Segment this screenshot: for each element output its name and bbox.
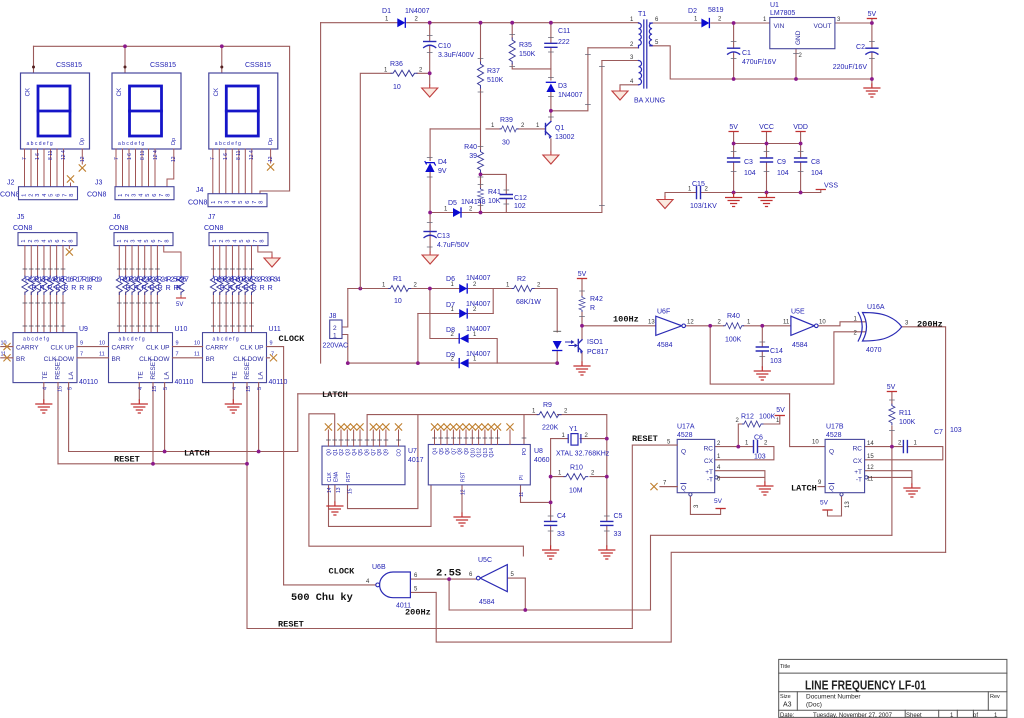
svg-text:D1: D1: [382, 8, 391, 15]
svg-text:2: 2: [333, 325, 337, 332]
svg-text:VDD: VDD: [793, 124, 808, 131]
svg-text:220K: 220K: [542, 425, 559, 432]
svg-text:4.7uF/50V: 4.7uF/50V: [437, 242, 470, 249]
svg-text:13: 13: [845, 501, 851, 508]
svg-text:Tuesday, November 27, 2007: Tuesday, November 27, 2007: [813, 712, 892, 718]
svg-text:R10: R10: [570, 465, 583, 472]
svg-text:U16A: U16A: [867, 304, 885, 311]
svg-text:104: 104: [777, 170, 789, 177]
svg-text:R40: R40: [464, 144, 477, 151]
svg-text:CX: CX: [853, 458, 863, 465]
svg-text:RRRRRRR: RRRRRRR: [220, 285, 276, 292]
svg-text:-T: -T: [707, 477, 713, 484]
svg-text:C14: C14: [770, 348, 783, 355]
svg-text:7: 7: [22, 157, 28, 160]
svg-text:5V: 5V: [887, 384, 896, 391]
svg-text:4: 4: [232, 387, 238, 390]
svg-text:104: 104: [744, 170, 756, 177]
svg-text:U17B: U17B: [826, 424, 844, 431]
svg-text:510K: 510K: [487, 77, 504, 84]
svg-text:15: 15: [348, 488, 354, 494]
svg-text:3.3uF/400V: 3.3uF/400V: [438, 52, 475, 59]
svg-text:103: 103: [950, 427, 962, 434]
svg-text:Q4: Q4: [433, 448, 439, 455]
svg-text:104: 104: [811, 170, 823, 177]
svg-text:10: 10: [99, 341, 105, 347]
svg-text:Q1: Q1: [555, 125, 564, 132]
svg-text:Q5: Q5: [358, 449, 364, 456]
svg-text:Title: Title: [780, 664, 790, 670]
svg-text:15: 15: [58, 386, 64, 392]
svg-text:4: 4: [43, 387, 49, 390]
svg-text:Q7: Q7: [371, 449, 377, 456]
svg-text:5819: 5819: [708, 7, 724, 14]
svg-text:CON8: CON8: [188, 200, 208, 207]
svg-text:4060: 4060: [534, 457, 550, 464]
svg-text:11: 11: [867, 477, 874, 483]
svg-text:R35: R35: [519, 42, 532, 49]
svg-text:of: of: [973, 713, 978, 718]
svg-text:4584: 4584: [479, 599, 495, 606]
svg-text:J3: J3: [95, 180, 103, 187]
svg-text:R37: R37: [487, 68, 500, 75]
svg-text:Q1: Q1: [333, 449, 339, 456]
svg-text:1 6: 1 6: [35, 153, 41, 160]
svg-text:R1: R1: [393, 276, 402, 283]
svg-text:C4: C4: [557, 513, 566, 520]
svg-text:U5C: U5C: [478, 557, 492, 564]
svg-text:D2: D2: [688, 8, 697, 15]
svg-text:9: 9: [270, 341, 273, 347]
svg-text:U6F: U6F: [657, 309, 670, 316]
svg-text:4528: 4528: [826, 432, 842, 439]
svg-text:68K/1W: 68K/1W: [516, 299, 541, 306]
svg-text:D3: D3: [558, 83, 567, 90]
svg-text:R2: R2: [517, 276, 526, 283]
svg-text:5V: 5V: [714, 498, 723, 505]
svg-text:CSS815: CSS815: [245, 62, 271, 69]
svg-text:10: 10: [819, 320, 826, 326]
svg-text:U9: U9: [79, 326, 88, 333]
svg-text:30: 30: [502, 140, 510, 147]
svg-text:Q12: Q12: [477, 448, 483, 458]
svg-text:LATCH: LATCH: [322, 390, 348, 400]
svg-text:1N4148: 1N4148: [461, 199, 486, 206]
svg-text:R: R: [590, 305, 595, 312]
svg-text:8 11: 8 11: [236, 150, 242, 160]
svg-text:U5E: U5E: [791, 309, 805, 316]
svg-text:BA XUNG: BA XUNG: [634, 98, 665, 105]
svg-text:J7: J7: [208, 214, 216, 221]
svg-text:ENA: ENA: [333, 471, 339, 482]
svg-text:13: 13: [648, 320, 655, 326]
svg-text:U1: U1: [770, 2, 779, 9]
svg-text:C11: C11: [558, 28, 570, 35]
svg-text:1N4007: 1N4007: [466, 326, 491, 333]
svg-text:Q5: Q5: [439, 448, 445, 455]
svg-text:4017: 4017: [408, 457, 424, 464]
svg-text:Date:: Date:: [780, 713, 795, 718]
svg-text:Sheet: Sheet: [906, 713, 922, 718]
svg-text:CO: CO: [397, 449, 403, 457]
svg-text:D4: D4: [438, 159, 447, 166]
svg-text:Q: Q: [829, 485, 834, 492]
svg-text:LM7805: LM7805: [770, 10, 795, 17]
svg-text:C6: C6: [754, 435, 763, 442]
svg-text:-T: -T: [856, 477, 862, 484]
svg-text:150K: 150K: [519, 51, 536, 58]
svg-text:15: 15: [867, 454, 874, 460]
svg-text:10K: 10K: [488, 198, 501, 205]
svg-text:CLK: CLK: [327, 472, 333, 482]
svg-text:13002: 13002: [555, 134, 575, 141]
svg-text:15: 15: [246, 386, 252, 392]
svg-text:Q7: Q7: [451, 448, 457, 455]
svg-text:VIN: VIN: [774, 23, 785, 30]
svg-text:CON8: CON8: [87, 192, 107, 199]
svg-text:Q10: Q10: [470, 448, 476, 458]
svg-text:U17A: U17A: [677, 424, 695, 431]
svg-text:1N4007: 1N4007: [466, 351, 491, 358]
svg-text:R27: R27: [176, 277, 189, 284]
svg-text:4528: 4528: [677, 432, 693, 439]
svg-text:103: 103: [754, 454, 766, 461]
svg-text:R28R29R30R31R32R33R34: R28R29R30R31R32R33R34: [214, 277, 281, 284]
svg-text:CLOCK: CLOCK: [329, 567, 356, 577]
svg-text:Q0: Q0: [327, 449, 333, 456]
svg-text:CSS815: CSS815: [150, 62, 176, 69]
svg-text:14: 14: [867, 441, 874, 447]
svg-text:VCC: VCC: [759, 124, 774, 131]
svg-text:10: 10: [393, 84, 401, 91]
svg-text:11: 11: [783, 320, 790, 326]
svg-text:5V: 5V: [729, 124, 738, 131]
svg-text:R39: R39: [500, 117, 513, 124]
svg-text:U8: U8: [534, 448, 543, 455]
svg-text:9: 9: [80, 341, 83, 347]
svg-text:500 Chu ky: 500 Chu ky: [291, 592, 353, 604]
svg-text:470uF/16V: 470uF/16V: [742, 59, 777, 66]
svg-text:RC: RC: [704, 446, 714, 453]
svg-text:7: 7: [210, 157, 216, 160]
svg-text:RESET: RESET: [114, 455, 140, 465]
svg-text:Q8: Q8: [458, 448, 464, 455]
svg-text:R42: R42: [590, 296, 603, 303]
svg-text:7: 7: [176, 352, 179, 358]
svg-text:10: 10: [394, 298, 402, 305]
svg-text:10M: 10M: [569, 488, 583, 495]
svg-text:LATCH: LATCH: [791, 484, 817, 494]
svg-text:C9: C9: [777, 159, 786, 166]
svg-text:RST: RST: [346, 472, 352, 482]
svg-text:PC817: PC817: [587, 349, 609, 356]
svg-text:102: 102: [514, 203, 526, 210]
svg-text:12: 12: [171, 156, 177, 162]
svg-text:100K: 100K: [725, 337, 742, 344]
svg-text:Q4: Q4: [352, 449, 358, 456]
svg-text:+T: +T: [705, 469, 713, 476]
svg-text:+T: +T: [854, 469, 862, 476]
svg-text:15: 15: [152, 386, 158, 392]
svg-text:200Hz: 200Hz: [917, 320, 943, 330]
svg-text:RESET: RESET: [278, 620, 304, 630]
svg-text:4584: 4584: [657, 342, 673, 349]
svg-text:11: 11: [519, 492, 525, 497]
svg-text:C15: C15: [692, 181, 705, 188]
svg-text:T1: T1: [638, 11, 646, 18]
svg-text:7: 7: [114, 157, 120, 160]
svg-text:U6B: U6B: [372, 564, 386, 571]
svg-text:1N4007: 1N4007: [466, 301, 491, 308]
svg-text:220uF/16V: 220uF/16V: [833, 64, 868, 71]
svg-text:10: 10: [194, 341, 200, 347]
svg-text:13: 13: [336, 487, 342, 493]
svg-text:R36: R36: [390, 61, 403, 68]
svg-text:222: 222: [558, 39, 570, 46]
svg-text:C7: C7: [934, 429, 943, 436]
svg-text:Size: Size: [780, 694, 791, 700]
svg-text:Q2: Q2: [339, 449, 345, 456]
svg-text:C12: C12: [514, 195, 527, 202]
svg-text:C8: C8: [811, 159, 820, 166]
svg-text:Q6: Q6: [445, 448, 451, 455]
svg-text:1 6: 1 6: [127, 153, 133, 160]
svg-text:12: 12: [268, 156, 274, 162]
svg-text:Document Number: Document Number: [806, 694, 861, 701]
svg-text:14: 14: [327, 487, 333, 493]
svg-text:XTAL 32.768KHz: XTAL 32.768KHz: [556, 451, 610, 458]
svg-text:ISO1: ISO1: [587, 339, 603, 346]
svg-text:U10: U10: [175, 326, 188, 333]
svg-text:R11: R11: [899, 410, 911, 417]
svg-text:5: 5: [163, 387, 169, 390]
svg-text:C5: C5: [614, 513, 623, 520]
svg-text:A3: A3: [783, 702, 792, 709]
svg-text:VSS: VSS: [824, 183, 838, 190]
svg-text:12: 12: [867, 465, 874, 471]
svg-text:CON8: CON8: [13, 225, 33, 232]
svg-text:11: 11: [194, 352, 200, 358]
svg-text:J4: J4: [196, 187, 204, 194]
svg-text:Q9: Q9: [384, 449, 390, 456]
svg-text:Q14: Q14: [489, 448, 495, 458]
svg-text:8 11: 8 11: [140, 150, 146, 160]
svg-text:Q: Q: [681, 485, 686, 492]
svg-text:RRRRRRRR: RRRRRRRR: [32, 285, 96, 292]
svg-text:5V: 5V: [176, 302, 183, 308]
svg-text:1N4007: 1N4007: [558, 92, 583, 99]
svg-text:12 4: 12 4: [249, 150, 255, 160]
svg-text:8 11: 8 11: [48, 150, 54, 160]
svg-text:5V: 5V: [820, 500, 829, 507]
svg-text:Y1: Y1: [569, 426, 578, 433]
svg-text:CON8: CON8: [0, 192, 20, 199]
svg-text:5V: 5V: [868, 11, 877, 18]
svg-text:LINE FREQUENCY LF-01: LINE FREQUENCY LF-01: [805, 679, 926, 693]
svg-text:GND: GND: [795, 30, 802, 45]
svg-text:7: 7: [80, 352, 83, 358]
svg-text:220VAC: 220VAC: [323, 343, 349, 350]
svg-text:11: 11: [99, 352, 105, 358]
svg-text:39: 39: [469, 153, 477, 160]
svg-text:CON8: CON8: [109, 225, 129, 232]
svg-text:RRRRRRR: RRRRRRR: [126, 285, 182, 292]
svg-text:5: 5: [257, 387, 263, 390]
svg-text:12: 12: [461, 489, 467, 495]
svg-text:U11: U11: [269, 326, 281, 333]
svg-text:Q3: Q3: [346, 449, 352, 456]
svg-text:R40: R40: [727, 313, 740, 320]
svg-text:5: 5: [68, 387, 74, 390]
svg-text:CLOCK: CLOCK: [279, 334, 306, 344]
svg-text:RST: RST: [461, 472, 467, 482]
svg-text:40110: 40110: [79, 379, 98, 386]
svg-text:1: 1: [333, 333, 337, 340]
svg-text:Q8: Q8: [377, 449, 383, 456]
svg-text:LATCH: LATCH: [184, 449, 210, 459]
svg-text:J2: J2: [7, 180, 15, 187]
svg-text:J6: J6: [113, 214, 121, 221]
svg-text:103: 103: [770, 358, 782, 365]
svg-text:12 4: 12 4: [153, 150, 159, 160]
svg-text:J8: J8: [329, 313, 337, 320]
svg-text:100K: 100K: [899, 419, 916, 426]
svg-text:1N4007: 1N4007: [405, 8, 430, 15]
svg-text:CSS815: CSS815: [56, 62, 82, 69]
svg-text:C3: C3: [744, 159, 753, 166]
svg-text:C10: C10: [438, 43, 451, 50]
svg-text:Q: Q: [829, 449, 834, 456]
svg-text:U7: U7: [408, 448, 417, 455]
svg-text:R12R13R14R15R16R17R18R19: R12R13R14R15R16R17R18R19: [25, 277, 102, 284]
svg-text:12 4: 12 4: [61, 150, 67, 160]
svg-text:CX: CX: [704, 458, 714, 465]
svg-text:Rev: Rev: [990, 694, 1000, 700]
svg-text:33: 33: [614, 531, 622, 538]
svg-text:C1: C1: [742, 50, 751, 57]
svg-text:200Hz: 200Hz: [405, 608, 431, 618]
svg-text:R9: R9: [543, 402, 552, 409]
svg-text:40110: 40110: [269, 379, 288, 386]
svg-text:40110: 40110: [175, 379, 194, 386]
svg-text:4584: 4584: [792, 342, 808, 349]
svg-text:12: 12: [80, 156, 86, 162]
svg-text:10: 10: [812, 440, 819, 446]
svg-text:J5: J5: [17, 214, 25, 221]
svg-text:Q13: Q13: [483, 448, 489, 458]
svg-text:4070: 4070: [866, 347, 882, 354]
svg-text:Q: Q: [681, 449, 686, 456]
svg-text:PI: PI: [519, 475, 525, 480]
svg-text:33: 33: [557, 531, 565, 538]
svg-text:1N4007: 1N4007: [466, 275, 491, 282]
svg-text:100K: 100K: [759, 414, 776, 421]
svg-text:Q6: Q6: [365, 449, 371, 456]
svg-text:1 6: 1 6: [223, 153, 229, 160]
svg-text:5V: 5V: [578, 271, 587, 278]
svg-text:C2: C2: [856, 44, 865, 51]
svg-text:RESET: RESET: [632, 434, 658, 444]
svg-text:103/1KV: 103/1KV: [690, 203, 717, 210]
svg-text:R: R: [176, 285, 181, 292]
svg-text:D5: D5: [448, 200, 457, 207]
svg-text:Q9: Q9: [464, 448, 470, 455]
svg-text:RC: RC: [853, 446, 863, 453]
svg-text:2.5S: 2.5S: [436, 568, 461, 580]
svg-text:9V: 9V: [438, 168, 447, 175]
svg-text:100Hz: 100Hz: [613, 315, 639, 325]
svg-text:4: 4: [138, 387, 144, 390]
svg-text:5V: 5V: [776, 407, 785, 414]
svg-text:(Doc): (Doc): [806, 702, 822, 709]
svg-text:PO: PO: [522, 448, 528, 455]
svg-text:R12: R12: [741, 414, 754, 421]
svg-text:R41: R41: [488, 189, 501, 196]
svg-text:C13: C13: [437, 233, 450, 240]
svg-text:VOUT: VOUT: [813, 23, 831, 30]
svg-text:12: 12: [687, 320, 694, 326]
svg-text:CON8: CON8: [204, 225, 224, 232]
svg-text:9: 9: [176, 341, 179, 347]
